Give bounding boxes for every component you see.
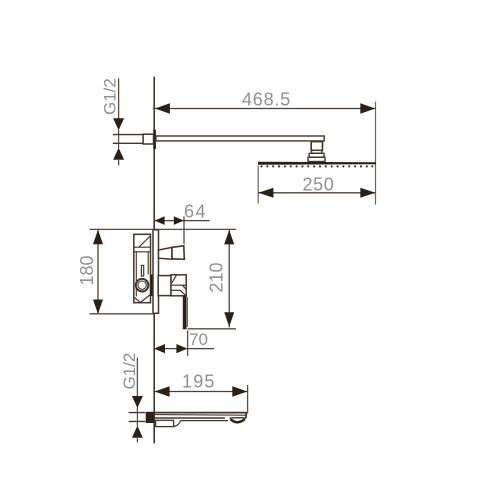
ball joint step [312,150,322,153]
extension line top shared 180/210 [90,228,237,230]
valve body inner vertical right [147,252,149,275]
valve body internal line 1 [134,246,151,248]
spout bottom line [154,417,225,419]
valve body inner vertical left [135,252,137,297]
dimension G1/2 top: middle segment [118,130,120,148]
svg-text:250: 250 [303,175,335,195]
lever body [171,275,186,296]
lever body line mid1 [171,284,186,286]
lever body diagonal mid [182,285,186,289]
dimension 180: line [97,229,99,314]
lever body line mid2 [171,289,180,291]
dimension 70: left arrow [154,344,165,353]
dimension G1/2 bottom: up arrow [132,426,143,438]
dimension 180: up arrow [93,230,103,245]
valve dark strip right [151,275,154,297]
dimension 210: down arrow [224,312,234,327]
extension line 64 dim [183,216,185,244]
dimension 195: line [154,391,247,393]
dimension 250: line [258,192,375,194]
dimension 250: right arrow [360,188,375,198]
extension line left of head (250 dim) [257,166,259,204]
shower head plate [258,162,376,165]
diverter knob [172,246,184,259]
dimension 210: line [228,229,230,327]
lever neck [158,276,171,296]
svg-text:G1/2: G1/2 [101,78,120,115]
extension line bottom 210 [188,328,236,330]
spout underside line [181,420,229,422]
dimension 210: up arrow [224,230,234,245]
shower head nozzle dots [260,165,373,167]
dimension G1/2 top: down arrow [113,118,124,130]
dimension G1/2 bottom: middle segment [136,407,138,427]
svg-text:G1/2: G1/2 [120,353,139,390]
wall escutcheon plate [153,230,159,313]
svg-text:210: 210 [207,262,227,292]
spout bracket arc [174,421,181,427]
ball joint base lower [308,157,325,161]
extension line right of head (468.5/250 dim) [375,102,377,205]
ball joint nut [311,142,322,151]
spout top line [154,412,246,414]
lever grip outline [187,297,189,327]
extension line 70 dim [187,330,189,355]
shower arm [156,136,324,141]
dimension G1/2 bottom: tick 2 [129,420,146,422]
dimension G1/2 bottom: line [136,358,138,397]
diverter neck [159,247,173,259]
valve bottom diagonal 2 [141,295,151,303]
svg-text:195: 195 [182,371,216,391]
spout wall connector [146,412,154,423]
dimension G1/2 bottom: down arrow [132,396,143,408]
svg-text:468.5: 468.5 [242,90,291,110]
valve body [134,234,151,302]
valve cartridge circle outer [136,279,149,292]
arm wall flange bar [153,130,156,149]
valve bottom diagonal 1 [135,298,141,303]
dimension G1/2 top: tail line [118,159,120,166]
dimension 250: left arrow [258,188,273,198]
spout outlet top arc [230,417,247,420]
spout outlet lip [231,419,245,422]
dimension 64: leader line [154,220,209,222]
dimension 64: right arrow [174,216,184,225]
dimension G1/2 top: line [118,78,120,120]
svg-text:64: 64 [184,202,207,222]
extension line bottom 180 [90,313,156,315]
lever grip [183,296,187,330]
dimension 468.5: line [154,108,375,110]
dimension G1/2 bottom: tick 1 [129,412,146,414]
dimension 195: right arrow [232,386,247,396]
spout second line [154,414,246,417]
valve body internal slot [141,265,143,276]
spout end cap [245,412,247,418]
dimension 468.5: left arrow [155,103,170,113]
lever body diagonal low [180,290,185,295]
dimension 195: left arrow [155,386,170,396]
valve body top diagonal [139,236,150,247]
dimension 468.5: right arrow [360,103,375,113]
extension line right of spout (195 dim) [247,385,249,413]
pipe stub lines (G1/2 ticks, arm inlet) [113,134,143,136]
valve cartridge circle inner [138,281,146,289]
dimension G1/2 bottom: tail line [136,438,138,442]
dimension 70: leader line [154,348,214,350]
svg-text:70: 70 [189,330,208,349]
ball joint base upper [309,153,324,157]
lever body diagonal top [172,275,177,283]
arm connector square [143,134,153,144]
dimension 64: left arrow [155,216,165,225]
svg-text:180: 180 [77,255,97,285]
dimension G1/2 top: up arrow [113,148,124,160]
wall line [153,77,155,444]
dimension 70: right arrow [176,344,187,353]
valve body internal line 2 [134,251,151,253]
spout bracket [156,420,174,426]
dimension 180: down arrow [93,300,103,315]
